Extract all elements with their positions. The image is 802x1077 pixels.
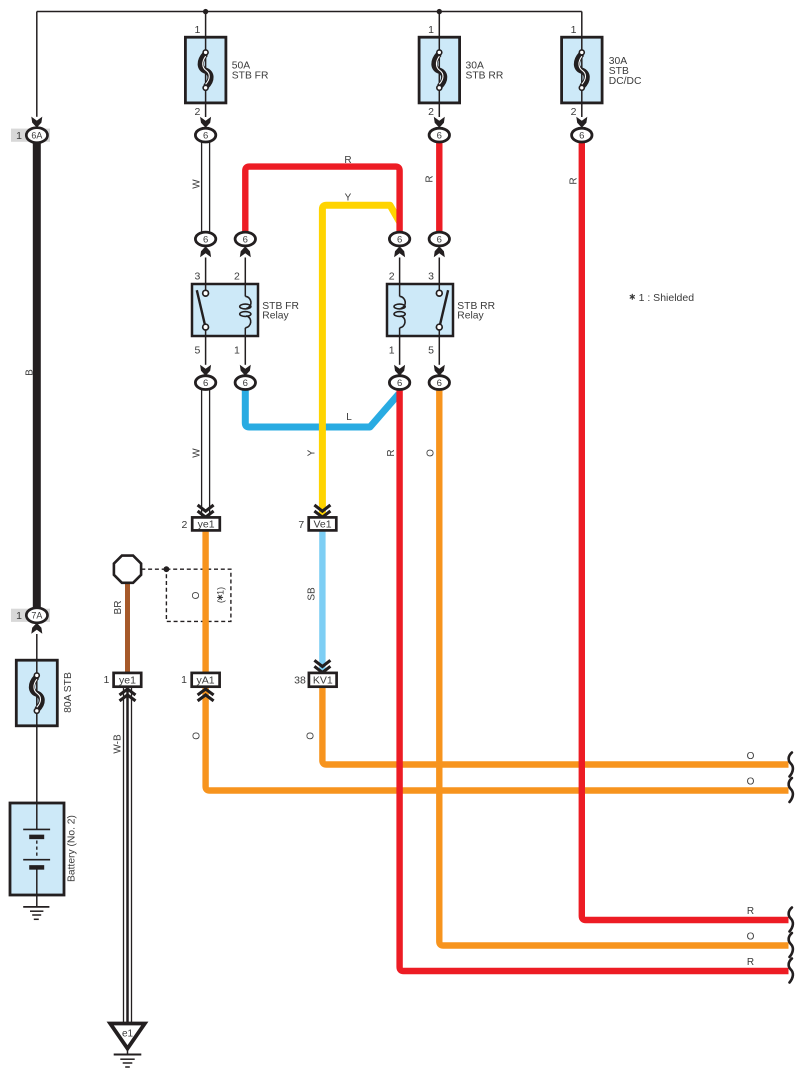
- svg-text:1: 1: [428, 24, 434, 36]
- svg-text:W: W: [192, 179, 203, 189]
- svg-text:R: R: [386, 449, 397, 456]
- svg-text:2: 2: [194, 106, 200, 118]
- svg-text:80A STB: 80A STB: [63, 672, 74, 713]
- svg-text:(1): (1): [216, 587, 226, 603]
- svg-text:7A: 7A: [31, 611, 42, 621]
- svg-text:6: 6: [437, 378, 442, 389]
- svg-text:6: 6: [397, 234, 402, 245]
- svg-text:1: 1: [194, 24, 200, 36]
- svg-text:6: 6: [579, 131, 584, 142]
- svg-text:5: 5: [428, 344, 434, 356]
- svg-text:O: O: [747, 777, 755, 788]
- svg-text:3: 3: [428, 271, 434, 283]
- svg-text:W-B: W-B: [113, 734, 124, 754]
- svg-text:6A: 6A: [31, 131, 42, 141]
- svg-text:7: 7: [298, 519, 304, 531]
- svg-text:O: O: [747, 751, 755, 762]
- svg-text:6: 6: [437, 234, 442, 245]
- svg-text:R: R: [747, 957, 754, 968]
- svg-text:6: 6: [203, 234, 208, 245]
- svg-text:R: R: [425, 175, 436, 182]
- svg-text:6: 6: [203, 131, 208, 142]
- svg-text:5: 5: [194, 344, 200, 356]
- svg-text:2: 2: [234, 271, 240, 283]
- svg-text:yA1: yA1: [197, 674, 215, 686]
- svg-text:Relay: Relay: [262, 310, 289, 321]
- svg-text:KV1: KV1: [313, 674, 333, 686]
- svg-text:e1: e1: [122, 1029, 134, 1040]
- svg-text:38: 38: [294, 674, 306, 686]
- svg-text:6: 6: [243, 234, 248, 245]
- svg-text:1: 1: [234, 344, 240, 356]
- svg-text:2: 2: [181, 519, 187, 531]
- svg-text:6: 6: [437, 131, 442, 142]
- svg-text:Y: Y: [307, 449, 318, 456]
- svg-text:6: 6: [397, 378, 402, 389]
- svg-text:ye1: ye1: [198, 519, 215, 531]
- svg-text:R: R: [569, 177, 580, 184]
- svg-text:1: 1: [181, 674, 187, 686]
- svg-text:1: 1: [16, 610, 22, 622]
- svg-text:2: 2: [571, 106, 577, 118]
- svg-text:R: R: [747, 906, 754, 917]
- svg-text:O: O: [426, 449, 437, 457]
- svg-text:L: L: [346, 412, 352, 423]
- svg-text:1: 1: [16, 130, 22, 142]
- svg-text:STB FR: STB FR: [232, 71, 269, 82]
- svg-text:W: W: [192, 448, 203, 458]
- svg-text:O: O: [191, 591, 202, 599]
- svg-text:Ve1: Ve1: [313, 519, 331, 531]
- svg-text:2: 2: [389, 271, 395, 283]
- svg-text:3: 3: [194, 271, 200, 283]
- svg-text:1 : Shielded: 1 : Shielded: [639, 292, 695, 304]
- svg-text:1: 1: [571, 24, 577, 36]
- svg-text:R: R: [344, 155, 351, 166]
- svg-text:O: O: [191, 732, 202, 740]
- svg-text:ye1: ye1: [119, 674, 136, 686]
- svg-text:1: 1: [389, 344, 395, 356]
- svg-text:O: O: [747, 932, 755, 943]
- svg-text:Battery (No. 2): Battery (No. 2): [67, 815, 78, 882]
- svg-text:STB RR: STB RR: [466, 71, 504, 82]
- svg-text:6: 6: [243, 378, 248, 389]
- svg-text:Y: Y: [345, 192, 352, 203]
- svg-text:SB: SB: [307, 587, 318, 601]
- svg-text:O: O: [306, 732, 317, 740]
- svg-text:B: B: [24, 369, 35, 376]
- svg-text:2: 2: [428, 106, 434, 118]
- svg-text:Relay: Relay: [457, 310, 484, 321]
- svg-text:DC/DC: DC/DC: [609, 76, 642, 87]
- svg-text:BR: BR: [113, 601, 124, 615]
- svg-text:6: 6: [203, 378, 208, 389]
- svg-text:1: 1: [103, 674, 109, 686]
